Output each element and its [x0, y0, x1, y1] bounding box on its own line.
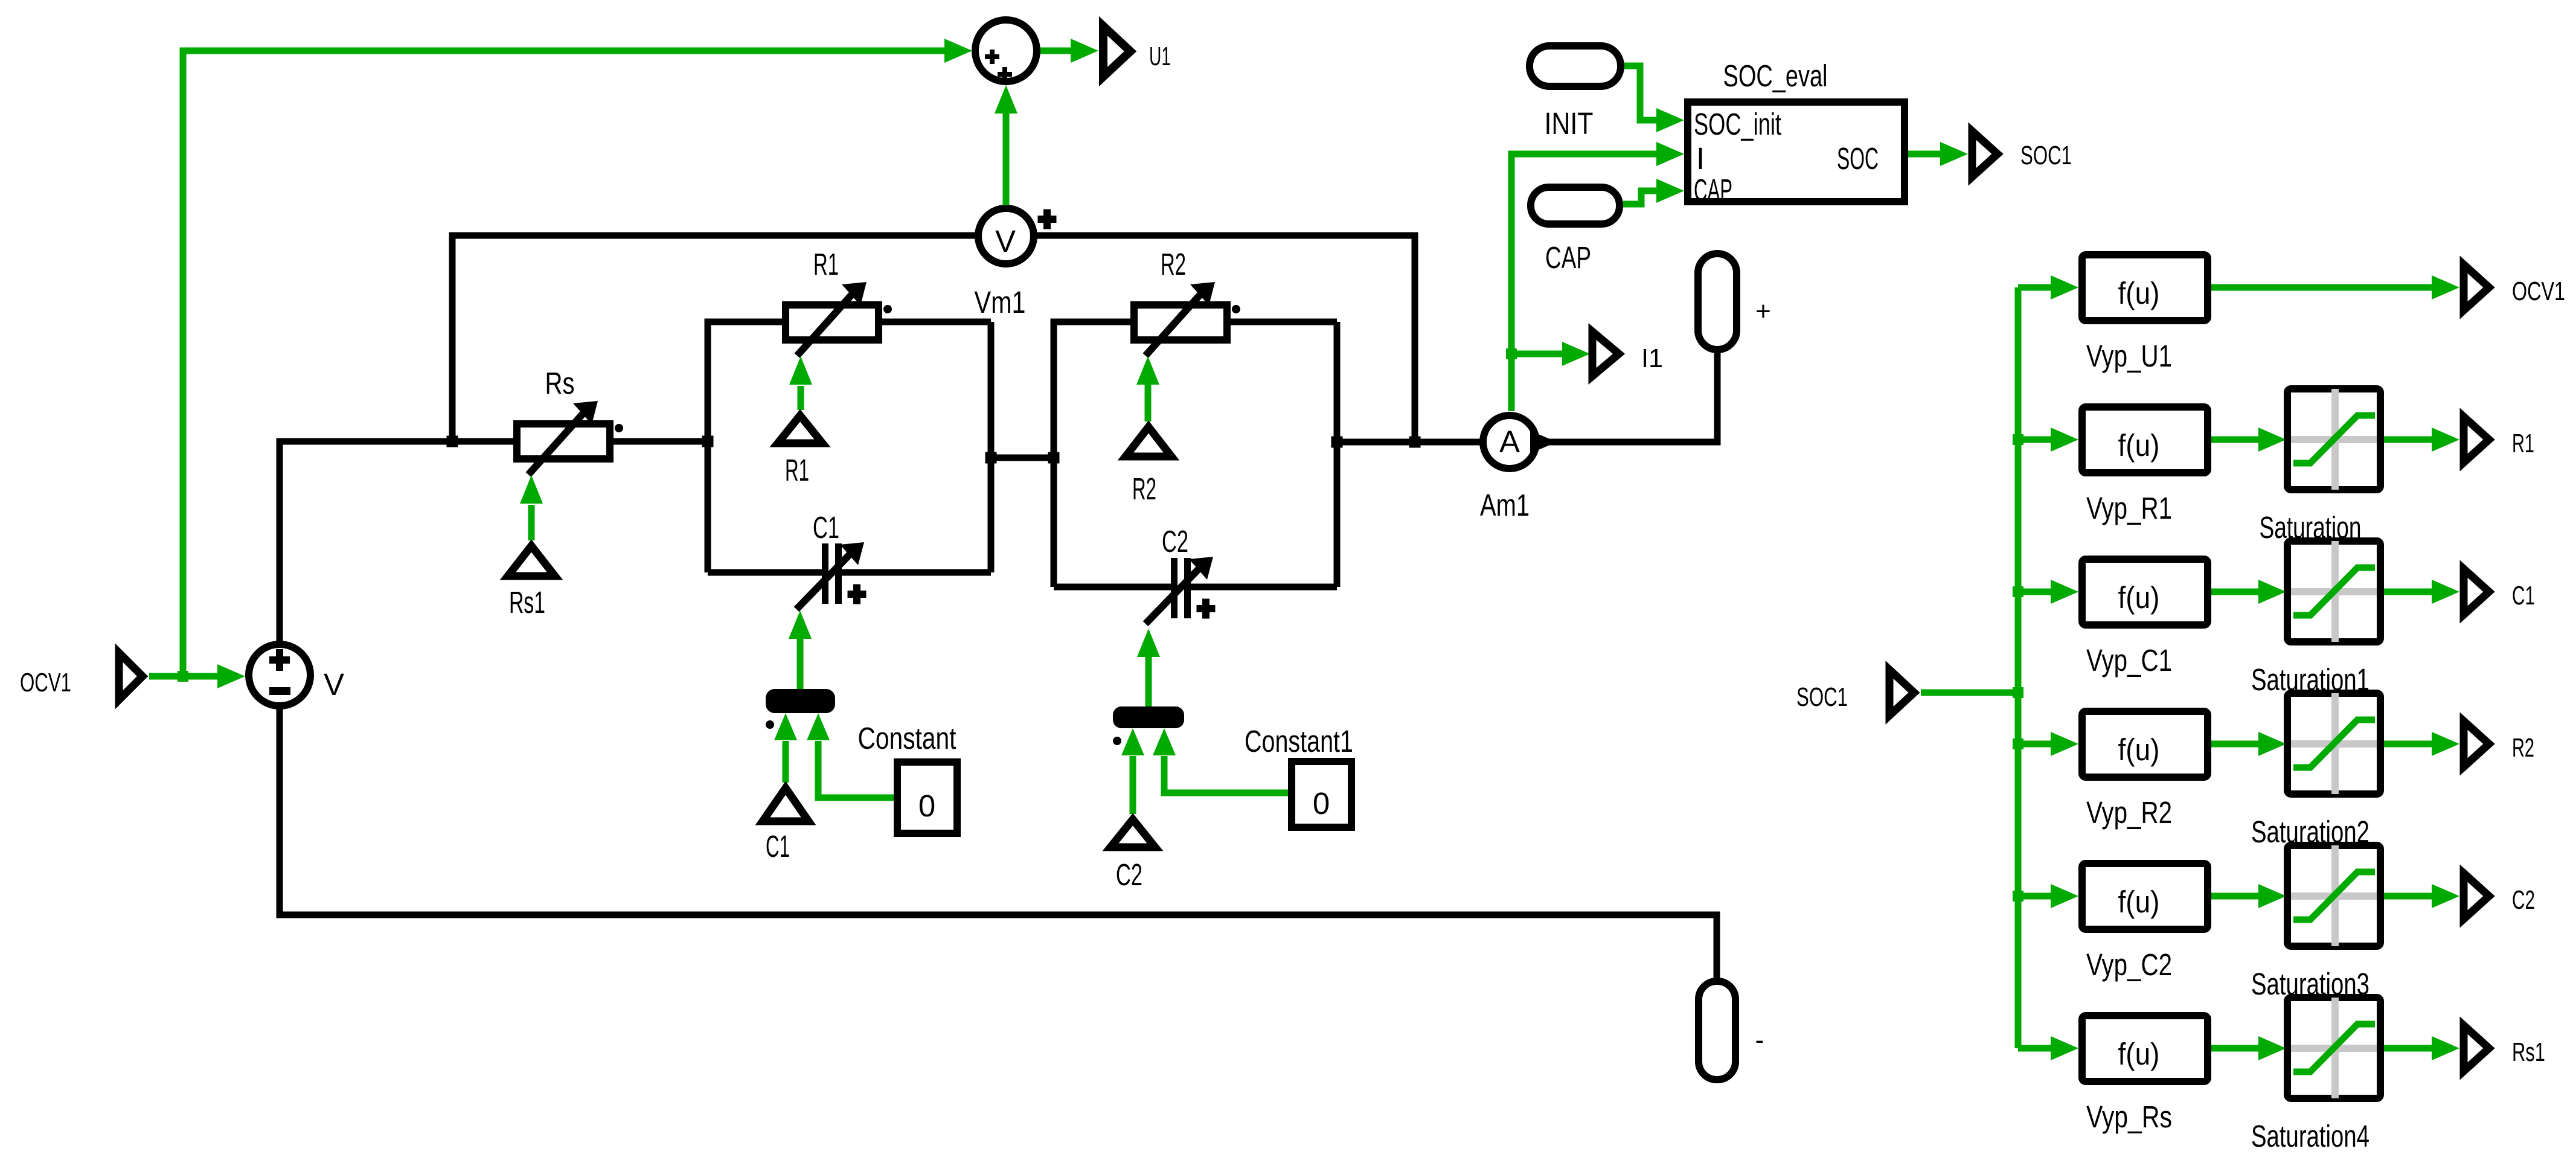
- wire green trunk: [2015, 287, 2022, 1048]
- label CAP: [1545, 240, 1591, 275]
- label I1: [1641, 344, 1663, 373]
- svg-text:C2: C2: [1116, 857, 1142, 892]
- label R1 below triangle: [785, 453, 809, 487]
- svg-text:Vyp_U1: Vyp_U1: [2086, 339, 2172, 373]
- wire trunk to Vyp_U1: [2018, 275, 2078, 300]
- label Saturation1: [2251, 662, 2369, 697]
- control arrow into R2: [1136, 356, 1159, 421]
- label Am1: [1480, 488, 1530, 522]
- constant block Constant: [897, 762, 957, 833]
- sum block: [975, 20, 1037, 82]
- constant capsule INIT: [1530, 46, 1621, 86]
- wire Vm1 to sum with arrow: [995, 85, 1017, 205]
- output port OCV1 (triangle): [2464, 264, 2489, 310]
- node junction at (2214,732): [1331, 437, 1343, 448]
- capacitor C2 (variable): [1145, 557, 1216, 624]
- label Constant: [858, 721, 956, 755]
- svg-text:SOC_eval: SOC_eval: [1723, 59, 1828, 93]
- wire Saturation1 to output: [2384, 580, 2459, 604]
- svg-text:R2: R2: [1161, 247, 1186, 281]
- node junction green trunk row 4: [2013, 738, 2023, 749]
- saturation block Saturation3: [2287, 845, 2380, 946]
- svg-text:C1: C1: [766, 829, 790, 863]
- svg-text:R1: R1: [785, 453, 809, 487]
- input port SOC1 (triangle): [1889, 670, 1914, 716]
- svg-text:SOC1: SOC1: [2020, 141, 2072, 170]
- label Vyp_U1: [2086, 339, 2172, 373]
- svg-text:f(u): f(u): [2118, 276, 2160, 310]
- svg-text:Rs: Rs: [545, 366, 575, 400]
- svg-text:OCV1: OCV1: [20, 668, 71, 697]
- wire Vyp_U1 to output OCV1: [2211, 275, 2459, 300]
- label V inside Vm1: [995, 224, 1016, 258]
- label R2 above: [1161, 247, 1186, 281]
- label Vyp_C1: [2086, 643, 2172, 677]
- wire Vm1 right branch: [1037, 235, 1415, 442]
- label V: [324, 667, 344, 702]
- input port R2 (triangle): [1126, 427, 1171, 456]
- control arrow into R1: [789, 356, 812, 410]
- function block Vyp_C1 f(u): [2082, 559, 2208, 625]
- svg-text:-: -: [1755, 1025, 1764, 1055]
- electrical port minus capsule: [1699, 981, 1735, 1080]
- mux2 input1 dot: [1113, 737, 1121, 745]
- wire green up from junction to sum: [183, 39, 972, 676]
- input port C2 (triangle): [1110, 819, 1155, 847]
- svg-text:f(u): f(u): [2118, 885, 2160, 919]
- wire SOC output with arrow: [1908, 142, 1968, 166]
- wire loop2 bottom: [1054, 584, 1337, 591]
- label INIT: [1545, 106, 1594, 141]
- wire trunk to Vyp_R2: [2018, 732, 2078, 756]
- wire ammeter to plus port: [1546, 353, 1717, 442]
- wire sum to U1 with arrow: [1040, 39, 1098, 63]
- svg-text:I1: I1: [1641, 344, 1663, 373]
- label Saturation: [2260, 510, 2362, 545]
- wire loop2 to ammeter: [1337, 439, 1480, 446]
- wire V bottom loop: [280, 709, 1717, 981]
- wire Saturation to output: [2384, 428, 2459, 452]
- svg-text:Vyp_R1: Vyp_R1: [2086, 491, 2172, 525]
- svg-text:Vm1: Vm1: [975, 285, 1026, 319]
- svg-text:f(u): f(u): [2118, 1037, 2160, 1071]
- output port U1 (triangle): [1103, 26, 1130, 77]
- label C2 above: [1162, 524, 1188, 559]
- output port Rs1 (triangle): [2464, 1025, 2489, 1071]
- pin label CAP: [1694, 173, 1732, 207]
- svg-text:SOC1: SOC1: [1796, 682, 1848, 712]
- output port I1 (triangle): [1592, 332, 1619, 376]
- svg-text:CAP: CAP: [1694, 173, 1732, 207]
- label output OCV1: [2512, 277, 2565, 306]
- svg-text:Am1: Am1: [1480, 488, 1530, 522]
- wire main after Rs: [614, 438, 708, 445]
- svg-text:U1: U1: [1149, 42, 1171, 71]
- label C1 above: [813, 510, 839, 545]
- svg-text:V: V: [995, 224, 1016, 258]
- node junction green trunk row 2: [2013, 434, 2023, 445]
- wire V top to main line: [280, 441, 513, 641]
- wire Vm1 left branch: [452, 235, 975, 441]
- signal mux for C2: [1113, 706, 1184, 728]
- wire OCV1 to V source with arrow: [149, 664, 245, 688]
- svg-text:R2: R2: [2512, 733, 2534, 763]
- wire Vyp_C1 to Saturation1: [2211, 580, 2286, 604]
- wire INIT to SOC_init: [1624, 66, 1684, 132]
- wire loop1 bottom: [708, 569, 991, 576]
- node junction green at (3342,1147): [2013, 687, 2023, 698]
- function block Vyp_R1 f(u): [2082, 407, 2208, 473]
- label OCV1: [20, 668, 71, 697]
- label output C2: [2512, 885, 2535, 915]
- label Rs1: [509, 585, 545, 620]
- wire loop1 right edge: [988, 322, 995, 572]
- wire loop2 top right: [1228, 319, 1337, 325]
- wire ammeter signal up to SOC_eval I: [1511, 142, 1684, 411]
- input port C1 (triangle): [763, 788, 809, 821]
- constant capsule CAP: [1531, 187, 1620, 224]
- label R2 below triangle: [1132, 472, 1156, 506]
- wire C2 triangle to mux2: [1121, 728, 1144, 814]
- node junction at (749,731): [447, 436, 458, 447]
- label Vyp_C2: [2086, 947, 2172, 982]
- svg-text:R1: R1: [813, 247, 839, 281]
- wire loop1 top right: [882, 319, 991, 325]
- svg-text:0: 0: [1313, 786, 1330, 821]
- svg-text:SOC_init: SOC_init: [1694, 107, 1781, 141]
- label SOC_eval: [1723, 59, 1828, 93]
- label U1: [1149, 42, 1171, 71]
- ammeter Am1: [1483, 415, 1557, 469]
- voltmeter Vm1: [978, 208, 1057, 264]
- node junction green at (303,1120): [178, 671, 188, 682]
- label C2 below triangle: [1116, 857, 1142, 892]
- input port OCV1 (triangle): [119, 653, 143, 700]
- label Rs: [545, 366, 575, 400]
- wire Constant1 to mux2: [1153, 728, 1288, 793]
- svg-text:Rs1: Rs1: [509, 585, 545, 620]
- label Vyp_Rs: [2086, 1100, 2172, 1134]
- svg-text:C1: C1: [813, 510, 839, 545]
- svg-text:f(u): f(u): [2118, 580, 2160, 615]
- svg-text:OCV1: OCV1: [2512, 277, 2565, 306]
- svg-text:Vyp_C2: Vyp_C2: [2086, 947, 2172, 982]
- signal mux for C1: [766, 689, 835, 713]
- svg-text:f(u): f(u): [2118, 732, 2160, 767]
- wire loop1 left edge: [708, 322, 782, 572]
- svg-text:V: V: [324, 667, 344, 702]
- wire mux2 output to C2: [1137, 629, 1160, 706]
- svg-text:C2: C2: [1162, 524, 1188, 559]
- node junction at (1641,758): [985, 452, 997, 464]
- label Vm1: [975, 285, 1026, 319]
- wire loop2 right edge: [1334, 322, 1341, 587]
- wire Constant to mux1: [807, 713, 894, 798]
- wire trunk to Vyp_C1: [2018, 580, 2078, 604]
- svg-text:0: 0: [918, 789, 935, 823]
- svg-text:I: I: [1696, 141, 1705, 176]
- label output R1: [2512, 429, 2534, 458]
- node junction green trunk row 3: [2013, 586, 2023, 597]
- resistor Rs (variable): [517, 401, 623, 475]
- label Vyp_R2: [2086, 795, 2172, 830]
- wire connector between loops: [991, 455, 1054, 461]
- wire branch to I1 with arrow: [1511, 342, 1590, 366]
- node junction green at (2503,586): [1506, 348, 1517, 359]
- pin label SOC: [1837, 141, 1879, 176]
- wire Saturation2 to output: [2384, 732, 2459, 756]
- pin label I: [1696, 141, 1705, 176]
- wire Vyp_R2 to Saturation2: [2211, 732, 2286, 756]
- svg-text:Saturation4: Saturation4: [2251, 1119, 2369, 1153]
- input port Rs1 (triangle): [508, 546, 555, 576]
- wire Vyp_R1 to Saturation: [2211, 428, 2286, 452]
- wire CAP to CAP pin: [1623, 179, 1684, 204]
- label output R2: [2512, 733, 2534, 763]
- wire SOC1 into trunk: [1921, 690, 2018, 696]
- label Saturation4: [2251, 1119, 2369, 1153]
- wire Vyp_C2 to Saturation3: [2211, 884, 2286, 908]
- svg-text:Vyp_Rs: Vyp_Rs: [2086, 1100, 2172, 1134]
- label Constant1: [1245, 724, 1353, 758]
- label Saturation3: [2251, 967, 2369, 1001]
- svg-text:Vyp_C1: Vyp_C1: [2086, 643, 2172, 677]
- saturation block Saturation: [2287, 389, 2380, 490]
- wire Vyp_Rs to Saturation4: [2211, 1036, 2286, 1060]
- wire C1 triangle to mux1: [774, 713, 797, 783]
- label Saturation2: [2251, 815, 2369, 849]
- function block Vyp_U1 f(u): [2082, 255, 2208, 321]
- constant block Constant1: [1292, 761, 1351, 827]
- label A inside Am1: [1499, 424, 1520, 459]
- saturation block Saturation4: [2287, 998, 2380, 1098]
- saturation block Saturation2: [2287, 693, 2380, 794]
- output port R2 (triangle): [2464, 721, 2489, 767]
- node junction green trunk row 5: [2013, 891, 2023, 902]
- saturation block Saturation1: [2287, 541, 2380, 642]
- output port C1 (triangle): [2464, 569, 2489, 615]
- wire loop2 left edge: [1054, 322, 1130, 587]
- svg-text:R1: R1: [2512, 429, 2534, 458]
- node junction at (1172,731): [702, 436, 714, 447]
- svg-text:CAP: CAP: [1545, 240, 1591, 275]
- voltage source V (controlled): [249, 644, 310, 706]
- output port R1 (triangle): [2464, 417, 2489, 463]
- function block Vyp_Rs f(u): [2082, 1016, 2208, 1081]
- control arrow into Rs: [520, 475, 543, 540]
- svg-text:Constant1: Constant1: [1245, 724, 1353, 758]
- pin label SOC_init: [1694, 107, 1781, 141]
- mux1 input1 dot: [766, 720, 774, 729]
- svg-text:C2: C2: [2512, 885, 2535, 915]
- svg-text:INIT: INIT: [1545, 106, 1594, 141]
- function block Vyp_C2 f(u): [2082, 863, 2208, 929]
- svg-text:Rs1: Rs1: [2512, 1037, 2545, 1067]
- label Vyp_R1: [2086, 491, 2172, 525]
- wire trunk to Vyp_C2: [2018, 884, 2078, 908]
- svg-text:SOC: SOC: [1837, 141, 1879, 176]
- node junction at (1745,758): [1048, 452, 1060, 464]
- svg-text:f(u): f(u): [2118, 428, 2160, 463]
- label output C1: [2512, 581, 2535, 610]
- electrical port plus capsule: [1698, 254, 1737, 350]
- label C1 below triangle: [766, 829, 790, 863]
- svg-text:A: A: [1499, 424, 1520, 459]
- wire mux1 output to C1: [789, 610, 812, 689]
- label output Rs1: [2512, 1037, 2545, 1067]
- label minus port: [1755, 1025, 1764, 1055]
- svg-text:C1: C1: [2512, 581, 2535, 610]
- svg-text:Constant: Constant: [858, 721, 956, 755]
- node junction at (2343,732): [1409, 437, 1421, 448]
- wire Saturation4 to output: [2384, 1036, 2459, 1060]
- resistor R2 (variable): [1134, 282, 1240, 356]
- wire trunk to Vyp_R1: [2018, 428, 2078, 452]
- function block Vyp_R2 f(u): [2082, 711, 2208, 777]
- wire Saturation3 to output: [2384, 884, 2459, 908]
- subsystem block SOC_eval: [1688, 102, 1905, 202]
- capacitor C1 (variable): [796, 542, 867, 609]
- resistor R1 (variable): [786, 282, 892, 356]
- output port SOC1 (triangle): [1972, 131, 1998, 177]
- svg-text:+: +: [1755, 296, 1771, 326]
- label SOC1 input: [1796, 682, 1848, 712]
- output port C2 (triangle): [2464, 873, 2489, 919]
- input port R1 (triangle): [778, 415, 822, 443]
- svg-text:Vyp_R2: Vyp_R2: [2086, 795, 2172, 830]
- label SOC1 output: [2020, 141, 2072, 170]
- label plus port: [1755, 296, 1771, 326]
- wire trunk to Vyp_Rs: [2018, 1036, 2078, 1060]
- svg-text:R2: R2: [1132, 472, 1156, 506]
- label R1 above: [813, 247, 839, 281]
